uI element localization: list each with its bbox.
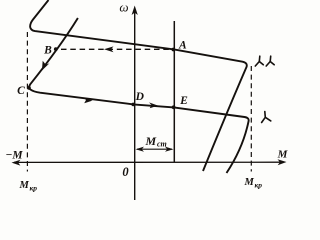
point A	[172, 48, 176, 52]
star symbol Y (lower curve label)	[262, 112, 271, 123]
svg-text:C: C	[17, 85, 25, 97]
left dashed vertical at -Mkr	[26, 32, 28, 172]
svg-text:0: 0	[122, 165, 129, 179]
star symbol Y (first of YY pair, upper curve label)	[255, 56, 263, 66]
point B	[54, 47, 58, 51]
M_st vertical line through A and E	[173, 21, 175, 162]
svg-text:М: М	[244, 177, 255, 188]
svg-text:E: E	[179, 95, 188, 107]
svg-text:ст: ст	[157, 140, 167, 149]
background paper	[0, 0, 298, 205]
arrow on D-to-E segment	[149, 102, 158, 108]
svg-text:ω: ω	[119, 0, 128, 15]
svg-text:М: М	[145, 134, 157, 148]
M axis (horizontal)	[12, 159, 287, 165]
svg-text:B: B	[43, 45, 52, 57]
svg-text:−М: −М	[5, 150, 23, 162]
svg-text:М: М	[19, 180, 30, 191]
curve YY (upper characteristic through A)	[30, 0, 247, 171]
M_st double-headed arrow	[136, 147, 174, 152]
svg-text:кр: кр	[255, 181, 263, 190]
svg-text:A: A	[178, 40, 187, 52]
point E	[172, 105, 176, 109]
star symbol Y (second of YY pair)	[266, 56, 274, 66]
curve Y (characteristic through B, C, D, E)	[29, 18, 249, 173]
arrow on B-to-C segment	[42, 61, 50, 71]
point D	[131, 103, 135, 107]
svg-text:D: D	[135, 91, 145, 103]
svg-text:кр: кр	[30, 184, 38, 193]
omega axis (vertical)	[132, 6, 138, 201]
point C	[27, 86, 31, 90]
arrow on C-to-D segment	[84, 97, 93, 103]
svg-text:М: М	[277, 149, 289, 161]
dashed transition line A to B with left arrow	[61, 46, 171, 52]
right dashed vertical at +Mkr	[250, 66, 252, 172]
